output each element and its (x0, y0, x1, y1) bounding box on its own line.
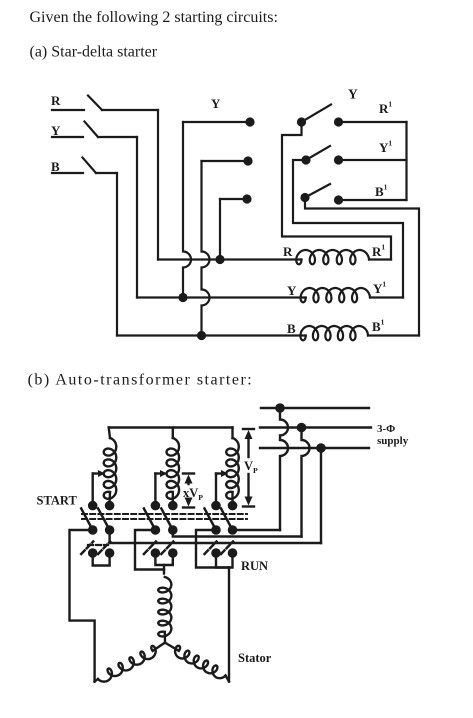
svg-text:Y: Y (348, 87, 358, 102)
svg-text:Given the following 2 starting: Given the following 2 starting circuits: (30, 9, 278, 26)
svg-text:3-Φ: 3-Φ (377, 423, 395, 435)
svg-text:RUN: RUN (241, 559, 268, 573)
svg-text:supply: supply (377, 435, 409, 447)
svg-text:Y: Y (211, 96, 221, 111)
svg-text:(a) Star-delta starter: (a) Star-delta starter (30, 44, 158, 61)
svg-text:R: R (283, 244, 293, 259)
svg-text:B: B (51, 159, 60, 174)
svg-text:Y: Y (51, 123, 61, 138)
svg-text:Y: Y (287, 283, 297, 298)
svg-text:Stator: Stator (238, 651, 272, 665)
svg-text:R: R (51, 93, 61, 108)
svg-text:START: START (37, 494, 78, 508)
svg-text:B: B (287, 321, 296, 336)
svg-text:(b) Auto-transformer starter:: (b) Auto-transformer starter: (28, 371, 254, 388)
